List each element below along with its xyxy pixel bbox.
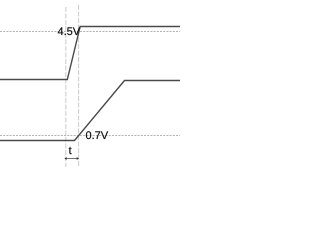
- waveform Vin (top trace: low, rising edge, high): [0, 27, 180, 80]
- dimension arrow t (double-headed between cursor lines): [64, 157, 79, 160]
- threshold line 0.7V (dotted): [0, 135, 180, 137]
- label 0.7V: [86, 131, 108, 139]
- waveform Vout (bottom trace: low, rising edge, high): [0, 81, 180, 141]
- cursor line left (dashed vertical, start of input edge): [65, 7, 67, 167]
- label t: [69, 147, 72, 154]
- cursor line right (dashed vertical, threshold crossing): [78, 5, 80, 167]
- label 4.5V: [58, 27, 80, 35]
- threshold line 4.5V (dotted): [0, 31, 180, 33]
